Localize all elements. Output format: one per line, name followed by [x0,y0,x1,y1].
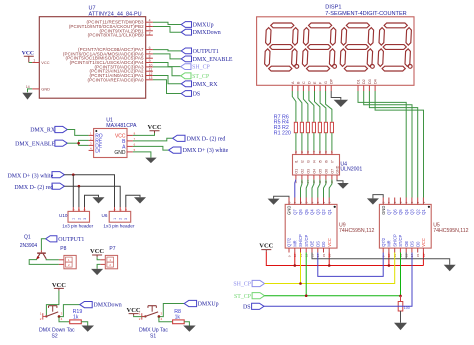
svg-text:Q7: Q7 [292,209,297,215]
svg-text:ST/CP: ST/CP [398,234,403,246]
wire resistor to U4 input 1 [295,133,297,151]
ground symbol at U10 [93,197,105,203]
svg-text:DMX D+ (3) white: DMX D+ (3) white [183,147,229,154]
svg-text:VCC: VCC [52,282,66,289]
wire U7 to net flag ST_CP [153,67,181,76]
display DISP1 7-SEGMENT-4DIGIT-COUNTER body [257,5,414,86]
svg-text:9: 9 [287,255,291,257]
svg-text:GND: GND [114,150,126,156]
wire U4 output 6 to U9.Q2 [324,180,326,198]
wire DMX_RX to U1.RO [67,130,88,136]
ground symbol at U7 pin 14 [22,89,32,100]
net flag DMX_ENABLE [181,56,233,63]
svg-text:OE: OE [310,241,315,247]
svg-text:D1: D1 [357,79,361,84]
svg-text:I7: I7 [330,160,334,163]
wire SH_CP net (yellow) [265,253,395,284]
wire display segment to resistor R2 [320,91,326,122]
wire switch to resistor R8 [159,317,173,322]
junction U9.VCC [328,264,331,267]
svg-text:Q5: Q5 [304,209,309,215]
junction ST_CP at pull resistor [399,295,402,298]
wire display segment to resistor R7 [292,91,296,122]
wire resistor to U4 input 5 [319,133,321,151]
display common pin wire to ground [331,91,341,100]
ground symbol below resistor [394,323,407,330]
svg-text:ST_CP: ST_CP [234,294,252,300]
svg-text:15: 15 [416,253,420,257]
svg-text:Q3: Q3 [315,209,320,215]
wire display segment to resistor R6 [298,91,302,122]
svg-text:U7: U7 [89,6,96,12]
resistor R6 [300,122,303,132]
net flag OUTPUT1 [181,48,219,55]
svg-text:G: G [324,81,328,84]
svg-text:Q4: Q4 [310,209,315,215]
wire display segment to resistor R4 [309,91,314,122]
svg-text:OUTPUT1: OUTPUT1 [193,49,219,55]
wire U7 to net flag DMXDown [153,27,181,33]
ground symbol at R19 [82,326,95,332]
svg-text:SH_CP: SH_CP [233,282,251,288]
svg-text:O7: O7 [330,169,334,174]
ground symbol at U4 [337,183,349,189]
svg-text:GND: GND [287,206,292,215]
svg-text:SH_CP: SH_CP [192,65,210,71]
svg-text:15: 15 [322,253,326,257]
svg-text:1x3 pin header: 1x3 pin header [62,223,93,228]
wire display D4 to U5.Q1 [375,91,423,198]
svg-text:DS: DS [315,241,320,247]
junction U5.MR/VCC [388,264,391,267]
wire U4 output 7 to U9.Q1 [329,180,332,198]
svg-text:VCC: VCC [259,243,273,250]
wire GND rail U9.OE / U5.OE to ground [312,253,450,265]
svg-text:3: 3 [83,218,87,220]
svg-text:Q3: Q3 [410,209,415,215]
net flag DMXDown [181,29,221,36]
wire VCC to switch S1 [134,315,146,318]
switch S2 DMX Down Tac [39,306,75,340]
svg-text:5: 5 [399,201,403,203]
svg-text:74HC595N,112: 74HC595N,112 [339,228,374,234]
wire U10 pin 3 to ground [85,195,99,207]
IC U9 74HC595N,112 body [285,198,374,258]
wire resistor R19 to ground [81,322,87,326]
wire VCC rail (net VCC) [266,252,423,266]
svg-text:P8: P8 [60,246,66,252]
wire display segment to resistor R5 [303,91,308,122]
wire DMX_ENABLE to U1.RE and U1.DE [67,142,78,144]
wire U7 to net flag DMX_RX [153,76,181,84]
svg-text:S2: S2 [52,334,58,340]
wire D+ branch to U10 pin 1 [72,175,74,207]
IC U5 74HC595N,112 body [379,198,468,258]
svg-text:2: 2 [322,201,326,203]
svg-text:6: 6 [393,201,397,203]
wire U1.GND to ground [133,152,151,158]
svg-text:C: C [302,81,306,84]
svg-text:DS: DS [193,92,201,98]
svg-text:Q1: Q1 [327,209,332,215]
svg-text:DMX_ENABLE: DMX_ENABLE [15,141,55,147]
wire U6 pin 3 to ground [126,195,140,207]
net flag DMXDown [80,302,122,309]
svg-text:DMXUp: DMXUp [198,302,219,308]
display digit 4 decimal point [408,65,412,69]
svg-text:DISP1: DISP1 [325,5,341,11]
net flag DMX D- (2) red [173,135,226,142]
IC U7 ATTINY24_44_84-PU body [26,6,153,99]
svg-text:1x3 pin header: 1x3 pin header [103,223,134,228]
svg-text:Q7/2: Q7/2 [381,237,386,247]
net flag DMX D- (2) red (header side) [14,183,64,191]
svg-text:OUTPUT1: OUTPUT1 [58,237,84,243]
connector P7 1x2 pin header [100,246,117,269]
ground symbol at P7 [91,269,103,275]
svg-text:D0: D0 [321,241,326,247]
net flag SH_CP bottom [233,280,264,287]
wire display D3 to U5.Q2 [369,91,417,198]
net flag DMXUp [181,22,213,29]
svg-text:O5: O5 [318,169,322,174]
ground symbol bottom right [444,265,456,272]
wire U1.A to flag DMX D+ (3) white [133,146,169,150]
net flag DMXUp [184,300,218,307]
svg-text:Q5: Q5 [398,209,403,215]
svg-text:1k: 1k [175,315,181,321]
wire U9.VCC to VCC rail [328,253,330,266]
svg-text:5: 5 [305,201,309,203]
resistor R3 [318,122,321,132]
svg-text:DI: DI [95,148,100,154]
svg-text:DMXDown: DMXDown [193,30,221,36]
connector U10 1x3 pin header [59,207,94,228]
wire U5.MR to VCC rail [388,253,390,266]
net flag DMX_RX [181,81,218,88]
svg-text:Q2: Q2 [321,209,326,215]
svg-text:DS: DS [243,304,251,310]
ground symbol at U6 [134,197,146,203]
svg-text:DP: DP [330,78,334,84]
wire resistor to U4 input 7 [331,133,333,151]
svg-text:Q7: Q7 [387,209,392,215]
svg-text:U10: U10 [59,213,68,218]
wire U1.B to flag DMX D- (2) red [133,138,173,141]
transistor Q1 2N3904 [20,234,47,259]
svg-text:7-SEGMENT-4DIGIT-COUNTER: 7-SEGMENT-4DIGIT-COUNTER [325,11,406,17]
wire DMX D- to header U6 pin 2 [64,186,120,207]
svg-text:ATTINY24_44_84-PU: ATTINY24_44_84-PU [89,12,142,18]
wire U4 output 1 to U9.Q7 (blue) [295,180,296,198]
wire display D2 to U5.Q3 [364,91,412,198]
IC U4 ULN2001 body [293,151,363,184]
svg-text:O3: O3 [306,169,310,174]
svg-text:8: 8 [287,201,291,203]
svg-text:VCC: VCC [147,124,161,131]
net flag DMX D+ (3) white [169,147,229,154]
wire U4 output 5 to U9.Q3 [318,180,320,198]
display digit 1 segments [265,23,298,71]
svg-text:DMX D+ (3) white: DMX D+ (3) white [7,172,53,179]
display digit 3 decimal point [371,65,375,69]
display digit 3 segments [340,23,373,71]
ground symbol at R8 [183,326,196,332]
junction SH_CP at U9 [299,282,302,285]
wire ST_CP net (green) [265,295,401,297]
resistor R19 1k [70,309,83,324]
resistor R8 1k [173,309,185,324]
svg-text:D4: D4 [374,79,378,84]
wire resistor to U4 input 3 [307,133,309,151]
svg-text:O6: O6 [324,169,328,174]
junction U9.MR/VCC [294,264,297,267]
ground symbol at U5 [367,198,379,204]
svg-text:DS: DS [410,241,415,247]
svg-text:I5: I5 [318,160,322,163]
wire U7 to net flag SH_CP [153,63,181,67]
svg-text:O4: O4 [312,169,316,174]
resistor R7 [294,122,297,132]
svg-text:GND: GND [41,86,50,91]
svg-text:ST_CP: ST_CP [192,74,210,80]
svg-text:P7: P7 [109,246,115,252]
svg-text:2N3904: 2N3904 [20,243,38,249]
wire resistor to ground [400,311,402,323]
wire display segment to resistor R3 [315,91,320,122]
wire U4 GND to ground [337,180,343,184]
connector U6 1x3 pin header [102,207,135,228]
junction ST_CP at U9 [305,294,308,297]
svg-text:2: 2 [119,218,123,220]
svg-text:VCC: VCC [41,60,49,65]
wire U7 to net flag DMXUp [153,22,181,24]
wire Q1 emitter to P8 pin 2 [29,259,59,265]
net flag DS bottom [243,303,264,310]
svg-text:6: 6 [299,201,303,203]
svg-text:O2: O2 [300,169,304,174]
wire U5.ST/CP to ST_CP net [400,253,402,296]
net flag ST_CP bottom [234,293,265,300]
svg-text:1k: 1k [73,315,79,321]
svg-text:DMXDown: DMXDown [94,303,122,309]
wire DS net to U5.DS [264,253,412,307]
wire VCC to switch S2 [46,291,59,316]
wire U5.OE to GND rail [405,253,407,259]
net flag DMX_ENABLE at U1 [15,140,67,147]
svg-text:Q4: Q4 [404,209,409,215]
wire U9.GND to ground [274,196,289,198]
svg-text:OE: OE [404,241,409,247]
wire switch S1 to flag DMXUp [159,304,184,317]
svg-text:1: 1 [72,218,76,220]
wire switch S2 to flag DMXDown [59,305,80,317]
svg-text:2: 2 [77,218,81,220]
wire U4 output 2 to U9.Q6 [301,180,302,198]
display digit 2 decimal point [333,65,337,69]
svg-text:O1: O1 [294,169,298,174]
wire VCC to P7 pin 1 [97,257,100,260]
svg-text:I1: I1 [294,160,298,163]
svg-text:3: 3 [124,218,128,220]
resistor R5 [306,122,309,132]
wire VCC symbol to U7.VCC [29,62,32,64]
display segment pins (left group) [291,78,334,91]
svg-text:4: 4 [310,201,314,203]
resistor R1 [330,122,333,132]
svg-text:D0: D0 [415,241,420,247]
svg-text:8: 8 [382,201,386,203]
svg-text:D2: D2 [362,79,366,84]
wire U7 to net flag DS [153,80,181,94]
resistor network labels R1-R7 [274,114,291,136]
svg-text:1: 1 [328,201,332,203]
svg-text:MAX481CPA: MAX481CPA [106,123,137,129]
svg-text:1: 1 [33,59,35,63]
svg-text:I4: I4 [312,160,316,163]
wire U4 output 3 to U9.Q5 [306,180,308,198]
svg-text:DMX_RX: DMX_RX [30,128,56,134]
svg-text:2: 2 [416,201,420,203]
IC U1 MAX481CPA body [89,117,137,157]
svg-text:S1: S1 [150,334,156,340]
svg-text:4: 4 [405,201,409,203]
junction DMX_ENABLE [77,142,80,145]
svg-text:3: 3 [410,201,414,203]
svg-text:DMX D- (2) red: DMX D- (2) red [187,135,226,142]
junction D+ at U10 [72,173,75,176]
net flag SH_CP [181,64,211,71]
svg-text:74HC595N,112: 74HC595N,112 [433,228,468,234]
svg-text:D: D [307,81,311,84]
svg-text:I2: I2 [300,160,304,163]
wire P7 pin 2 to ground [97,264,100,269]
svg-text:9: 9 [149,59,151,63]
wire display D1 to U5.Q4 [358,91,406,198]
junction at S2 [58,315,61,318]
svg-text:Q6: Q6 [392,209,397,215]
wire resistor to U4 input 4 [313,133,315,151]
svg-text:DMXUp: DMXUp [193,23,214,29]
net flag DMX_RX at U1 [30,126,67,133]
svg-text:D3: D3 [368,79,372,84]
ground symbol below display [334,100,349,107]
junction at S1 [158,315,161,318]
wire U5.Q7/2 to U9.DS (shift chain) [318,253,383,277]
junction D- at U10 [78,185,81,188]
svg-text:VCC: VCC [421,238,426,247]
wire U5.VCC to VCC rail [422,253,424,266]
wire U9.SH/CP to SH_CP net [300,253,302,284]
svg-text:13: 13 [149,76,153,80]
ground symbol at U1 [145,158,157,164]
svg-text:7: 7 [387,201,391,203]
svg-text:MR: MR [292,240,297,246]
svg-text:DMX D- (2) red: DMX D- (2) red [14,184,53,191]
wire U4 output 4 to U9.Q4 [312,180,314,198]
svg-text:GND: GND [335,165,339,173]
ground symbol at U9 [268,199,280,205]
wire U9.ST/CP to ST_CP net [305,253,307,296]
switch S1 DMX Up Tac [139,306,169,340]
wire resistor R8 to ground [184,322,189,326]
net flag OUTPUT1 at Q1 [46,236,85,243]
wire ST_CP to pull-down resistor [400,296,402,302]
svg-text:ULN2001: ULN2001 [340,166,362,172]
wire U5.GND to ground [373,195,383,199]
resistor pull-down 100 [398,302,410,312]
svg-text:VCC: VCC [90,248,104,255]
wire DMX D+ to headers U10/U6 pin 1 [64,175,114,207]
svg-text:3: 3 [316,201,320,203]
svg-text:U6: U6 [102,213,108,218]
resistor R4 [312,122,315,132]
svg-text:Q6: Q6 [298,209,303,215]
svg-text:VCC: VCC [327,238,332,247]
svg-text:(PCINT0/AREF/ADC0)PA0: (PCINT0/AREF/ADC0)PA0 [87,77,144,82]
svg-text:Q1: Q1 [24,234,31,240]
wire U7 to net flag DMX_ENABLE [153,54,181,59]
wire D- branch to U10 pin 2 [78,186,80,207]
svg-text:ST/CP: ST/CP [304,234,309,246]
svg-text:1: 1 [422,201,426,203]
wire resistor to U4 input 6 [325,133,327,151]
wire switch to resistor R19 [59,317,70,322]
svg-text:MR: MR [387,240,392,246]
wire Q1 collector to P8 pin 1 [46,259,59,260]
wire display segment to resistor R1 [326,91,332,122]
svg-text:R1 220: R1 220 [274,131,291,137]
svg-text:GND: GND [381,206,386,215]
display digit 2 segments [302,23,335,71]
net flag DMX D+ (3) white (header side) [7,172,64,180]
svg-text:I6: I6 [324,160,328,163]
svg-text:1: 1 [113,218,117,220]
resistor R2 [324,122,327,132]
svg-text:Q7/2: Q7/2 [287,237,292,247]
wire U9.MR to VCC rail [294,253,296,266]
svg-text:Q1: Q1 [421,209,426,215]
svg-text:DMX_ENABLE: DMX_ENABLE [193,57,233,63]
net flag DS [181,91,200,98]
svg-text:SH/CP: SH/CP [298,234,303,247]
svg-text:7: 7 [293,201,297,203]
connector P8 1x2 pin header [59,246,76,269]
display digit 4 segments [378,23,411,71]
svg-text:Q2: Q2 [415,209,420,215]
wire resistor to U4 input 2 [301,133,303,151]
svg-text:2: 2 [149,32,151,36]
wire OUTPUT1 to Q1 base [41,239,45,250]
display digit 1 decimal point [295,65,299,69]
wire U7 to net flag OUTPUT1 [153,50,181,51]
svg-text:I3: I3 [306,160,310,163]
display digit pins (right group) [357,79,378,91]
svg-text:DMX_RX: DMX_RX [193,82,219,88]
net flag ST_CP [181,73,210,80]
wire VCC to U1.VCC [133,133,155,135]
svg-text:SH/CP: SH/CP [392,234,397,247]
svg-text:VCC: VCC [22,51,34,57]
svg-text:(PCINT8/XTAL1/CLKI)PB0: (PCINT8/XTAL1/CLKI)PB0 [88,33,144,38]
VCC supply symbol at U7 pin 1 [22,51,34,63]
